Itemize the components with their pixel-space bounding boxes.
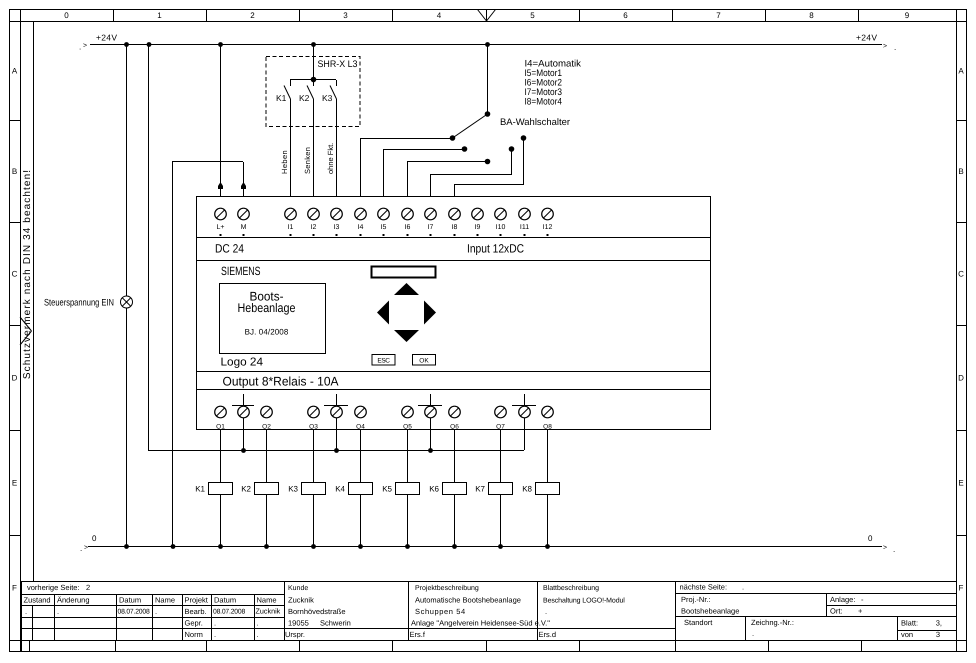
- svg-text:K4: K4: [335, 484, 345, 493]
- svg-text:OK: OK: [419, 357, 429, 364]
- svg-text:Q4: Q4: [356, 423, 365, 430]
- svg-text:Q7: Q7: [496, 423, 505, 430]
- svg-text:8: 8: [809, 11, 814, 20]
- svg-text:Q6: Q6: [450, 423, 459, 430]
- svg-text:A: A: [958, 66, 964, 75]
- svg-text:+24V: +24V: [856, 33, 877, 43]
- svg-text:E: E: [958, 478, 963, 487]
- svg-text:Q5: Q5: [403, 423, 412, 430]
- svg-text:I11: I11: [520, 224, 529, 231]
- svg-text:Datum: Datum: [119, 595, 141, 604]
- svg-text:Proj.-Nr.:: Proj.-Nr.:: [681, 595, 711, 604]
- svg-text:A: A: [12, 66, 18, 75]
- svg-text:B: B: [12, 167, 17, 176]
- svg-text:.: .: [752, 629, 754, 638]
- svg-text:I4: I4: [358, 224, 364, 231]
- svg-text:Änderung: Änderung: [57, 595, 90, 604]
- svg-text:Steuerspannung EIN: Steuerspannung EIN: [44, 297, 114, 308]
- svg-text:I1: I1: [288, 224, 294, 231]
- svg-text:K1: K1: [195, 484, 205, 493]
- svg-text:F: F: [12, 583, 17, 592]
- svg-text:Q3: Q3: [309, 423, 318, 430]
- svg-text:.: .: [257, 630, 259, 639]
- svg-text:D: D: [12, 373, 18, 382]
- svg-text:K3: K3: [288, 484, 298, 493]
- svg-text:K2: K2: [299, 93, 310, 103]
- svg-text:19055: 19055: [288, 619, 309, 628]
- svg-text:nächste Seite:: nächste Seite:: [680, 583, 728, 592]
- svg-text:Q1: Q1: [216, 423, 225, 430]
- svg-text:K7: K7: [475, 484, 485, 493]
- svg-text:Bornhövedstraße: Bornhövedstraße: [288, 607, 346, 616]
- svg-text:Hebeanlage: Hebeanlage: [238, 301, 296, 315]
- svg-text:Schutzvermerk nach DIN 34 beac: Schutzvermerk nach DIN 34 beachten!: [22, 169, 33, 379]
- svg-text:Projekt: Projekt: [185, 595, 209, 604]
- svg-text:.: .: [80, 544, 82, 553]
- svg-text:ohne Fkt.: ohne Fkt.: [326, 143, 335, 174]
- svg-text:Q8: Q8: [543, 423, 552, 430]
- svg-text:.: .: [545, 607, 547, 616]
- svg-text:I2: I2: [311, 224, 317, 231]
- svg-text:I8: I8: [452, 224, 458, 231]
- svg-text:.: .: [214, 618, 216, 627]
- svg-text:von: von: [901, 630, 913, 639]
- svg-text:I5: I5: [381, 224, 387, 231]
- svg-text:M: M: [241, 224, 247, 231]
- svg-text:2: 2: [86, 583, 90, 592]
- svg-text:K2: K2: [241, 484, 251, 493]
- svg-text:08.07.2008: 08.07.2008: [213, 609, 245, 616]
- svg-text:Gepr.: Gepr.: [185, 618, 203, 627]
- svg-text:08.07.2008: 08.07.2008: [118, 609, 150, 616]
- svg-text:F: F: [959, 583, 964, 592]
- svg-text:Anlage:: Anlage:: [830, 595, 855, 604]
- svg-text:I3: I3: [334, 224, 340, 231]
- svg-text:Zucknik: Zucknik: [288, 596, 314, 605]
- svg-text:Kunde: Kunde: [288, 584, 308, 592]
- svg-text:Zustand: Zustand: [24, 595, 51, 604]
- svg-text:.: .: [893, 545, 895, 554]
- svg-text:Output 8*Relais - 10A: Output 8*Relais - 10A: [223, 374, 340, 388]
- svg-text:Anlage "Angelverein Heidensee-: Anlage "Angelverein Heidensee-Süd e.V.": [411, 619, 550, 628]
- svg-text:Heben: Heben: [280, 150, 289, 174]
- svg-text:Ort:: Ort:: [830, 607, 843, 616]
- svg-text:Schuppen 54: Schuppen 54: [415, 607, 466, 616]
- svg-text:DC 24: DC 24: [215, 242, 244, 256]
- svg-text:1: 1: [157, 11, 162, 20]
- svg-text:>: >: [883, 545, 887, 552]
- svg-text:BJ. 04/2008: BJ. 04/2008: [245, 327, 289, 336]
- svg-text:Standort: Standort: [684, 618, 713, 627]
- svg-text:2: 2: [250, 11, 255, 20]
- svg-text:.: .: [894, 43, 896, 52]
- svg-text:Bootshebeanlage: Bootshebeanlage: [681, 607, 739, 616]
- svg-text:Schwerin: Schwerin: [320, 619, 351, 628]
- svg-text:C: C: [958, 269, 964, 278]
- svg-text:Zucknik: Zucknik: [256, 607, 281, 616]
- svg-text:I9: I9: [475, 224, 481, 231]
- svg-text:Bearb.: Bearb.: [185, 607, 207, 616]
- svg-text:Blattbeschreibung: Blattbeschreibung: [543, 584, 599, 592]
- svg-text:K3: K3: [322, 93, 333, 103]
- svg-text:4: 4: [437, 11, 442, 20]
- svg-text:7: 7: [716, 11, 721, 20]
- svg-text:3,: 3,: [936, 618, 942, 627]
- svg-text:3: 3: [343, 11, 348, 20]
- svg-text:Blatt:: Blatt:: [901, 618, 918, 627]
- svg-text:Q2: Q2: [262, 423, 271, 430]
- svg-text:5: 5: [530, 11, 535, 20]
- svg-text:.: .: [25, 607, 27, 616]
- svg-text:L+: L+: [217, 224, 225, 231]
- svg-text:Datum: Datum: [214, 595, 236, 604]
- svg-text:9: 9: [905, 11, 910, 20]
- svg-text:.: .: [155, 607, 157, 616]
- svg-text:Senken: Senken: [303, 147, 312, 174]
- svg-text:.: .: [79, 42, 81, 51]
- svg-text:3: 3: [936, 630, 940, 639]
- svg-text:BA-Wahlschalter: BA-Wahlschalter: [500, 117, 570, 128]
- svg-text:.: .: [257, 618, 259, 627]
- svg-text:0: 0: [64, 11, 69, 20]
- svg-text:.: .: [742, 583, 744, 592]
- svg-text:+: +: [858, 607, 863, 616]
- svg-text:Input 12xDC: Input 12xDC: [467, 242, 524, 256]
- svg-text:+24V: +24V: [96, 33, 117, 43]
- svg-text:SIEMENS: SIEMENS: [221, 264, 261, 278]
- svg-text:0: 0: [92, 534, 97, 543]
- svg-text:Automatische Bootshebeanlage: Automatische Bootshebeanlage: [415, 596, 521, 605]
- svg-text:I8=Motor4: I8=Motor4: [525, 96, 563, 107]
- svg-text:Projektbeschreibung: Projektbeschreibung: [415, 584, 479, 592]
- svg-text:Norm: Norm: [185, 630, 203, 639]
- svg-text:Name: Name: [257, 595, 277, 604]
- svg-text:I12: I12: [543, 224, 553, 231]
- svg-text:vorherige Seite:: vorherige Seite:: [27, 583, 80, 592]
- svg-text:>: >: [84, 545, 88, 552]
- svg-text:I10: I10: [496, 224, 506, 231]
- svg-text:C: C: [12, 269, 18, 278]
- svg-text:Zeichng.-Nr.:: Zeichng.-Nr.:: [751, 618, 794, 627]
- svg-text:Ers.d: Ers.d: [539, 630, 557, 639]
- svg-text:K8: K8: [522, 484, 532, 493]
- svg-text:>: >: [83, 43, 87, 50]
- svg-text:K5: K5: [382, 484, 392, 493]
- svg-text:I7: I7: [428, 224, 434, 231]
- svg-text:Ers.f: Ers.f: [410, 630, 426, 639]
- svg-text:B: B: [958, 167, 963, 176]
- svg-text:Name: Name: [155, 595, 175, 604]
- svg-text:6: 6: [623, 11, 628, 20]
- svg-text:Urspr.: Urspr.: [285, 630, 305, 639]
- svg-text:.: .: [214, 630, 216, 639]
- svg-text:E: E: [12, 478, 17, 487]
- svg-text:ESC: ESC: [377, 357, 390, 364]
- svg-text:0: 0: [868, 534, 873, 543]
- svg-text:K6: K6: [429, 484, 439, 493]
- svg-text:Beschaltung LOGO!-Modul: Beschaltung LOGO!-Modul: [543, 597, 625, 605]
- svg-text:I6: I6: [405, 224, 411, 231]
- svg-text:SHR-X L3: SHR-X L3: [318, 59, 358, 70]
- svg-text:K1: K1: [276, 93, 287, 103]
- svg-text:.: .: [57, 607, 59, 616]
- svg-text:>: >: [883, 43, 887, 50]
- svg-text:D: D: [958, 373, 964, 382]
- svg-text:Logo 24: Logo 24: [221, 357, 264, 369]
